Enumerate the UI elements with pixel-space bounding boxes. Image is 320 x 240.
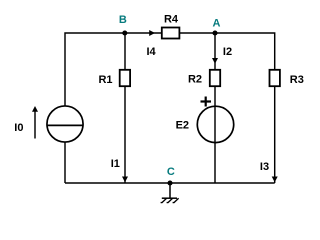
arrow I4 bbox=[149, 30, 155, 36]
node C bbox=[167, 180, 172, 185]
svg-text:I4: I4 bbox=[147, 46, 157, 58]
arrow I1 bbox=[122, 177, 128, 183]
wire branch B-C through R1 bbox=[124, 33, 126, 183]
label I2 bbox=[223, 46, 232, 58]
wire branch A-C through R2 and E2 bbox=[214, 33, 216, 183]
resistor R1 bbox=[120, 70, 130, 86]
svg-text:R4: R4 bbox=[164, 13, 179, 25]
svg-text:E2: E2 bbox=[176, 119, 189, 131]
wire top: node B through R4 position to node A bbox=[125, 32, 215, 34]
label I4 bbox=[147, 46, 157, 58]
plus sign of E2 bbox=[201, 97, 212, 107]
label R2 bbox=[188, 74, 202, 86]
current source I0 bbox=[47, 106, 83, 142]
ground bbox=[161, 183, 179, 203]
arrow I2 bbox=[212, 58, 218, 64]
label node A bbox=[213, 18, 221, 30]
svg-text:A: A bbox=[213, 18, 221, 30]
label I3 bbox=[260, 161, 269, 173]
svg-text:I1: I1 bbox=[111, 158, 120, 170]
node A bbox=[212, 30, 217, 35]
svg-text:B: B bbox=[119, 14, 127, 26]
svg-text:I3: I3 bbox=[260, 161, 269, 173]
arrow I0 bbox=[32, 106, 38, 139]
label R4 bbox=[164, 13, 179, 25]
wire top-right: node A to right rail corner bbox=[215, 33, 275, 183]
arrow I3 bbox=[272, 177, 278, 183]
svg-text:C: C bbox=[167, 166, 175, 178]
resistor R4 bbox=[162, 28, 180, 39]
svg-text:R1: R1 bbox=[98, 74, 112, 86]
label node C bbox=[167, 166, 175, 178]
resistor R3 bbox=[270, 70, 280, 86]
label I1 bbox=[111, 158, 120, 170]
label node B bbox=[119, 14, 127, 26]
wire bottom rail bbox=[65, 182, 275, 184]
svg-text:R2: R2 bbox=[188, 74, 202, 86]
label I0 bbox=[14, 122, 23, 134]
label R1 bbox=[98, 74, 112, 86]
svg-text:I0: I0 bbox=[14, 122, 23, 134]
node B bbox=[122, 30, 127, 35]
resistor R2 bbox=[210, 70, 220, 86]
wire left rail bottom: I0 to bottom rail bbox=[64, 142, 66, 184]
svg-text:R3: R3 bbox=[290, 74, 304, 86]
wire top-left: left rail top corner from I0 to node B bbox=[65, 33, 125, 107]
svg-text:I2: I2 bbox=[223, 46, 232, 58]
label E2 bbox=[176, 119, 189, 131]
label R3 bbox=[290, 74, 304, 86]
voltage source E2 bbox=[197, 106, 233, 142]
